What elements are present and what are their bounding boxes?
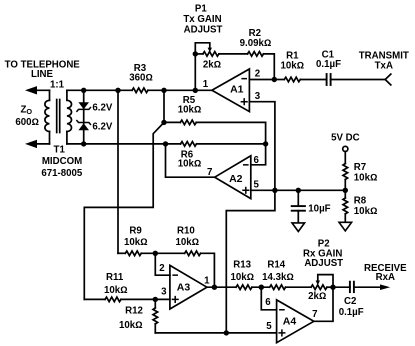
node R9 riser top [115, 88, 120, 93]
label R9 10k [124, 226, 148, 248]
svg-text:ADJUST: ADJUST [304, 258, 343, 269]
node A3 pin3 [153, 297, 158, 302]
wire R9 riser from top rail [117, 90, 119, 253]
node bottom reference [224, 330, 229, 335]
ground under C3 [292, 223, 305, 232]
capacitor C2 [350, 282, 380, 292]
svg-text:1: 1 [203, 79, 209, 90]
zener diode D1 6.2V [77, 102, 91, 111]
svg-text:MIDCOM: MIDCOM [42, 156, 82, 167]
svg-text:9.09kΩ: 9.09kΩ [240, 38, 272, 49]
label R8 10k [354, 196, 378, 218]
svg-text:R10: R10 [177, 226, 195, 237]
label R5 10k [178, 95, 202, 115]
terminal RECEIVE RxA arrow [380, 284, 390, 290]
label P2 Rx GAIN ADJUST [303, 239, 343, 270]
core [56, 100, 58, 133]
wire A1 pin3 to reference [249, 102, 275, 191]
transformer T1 [45, 90, 72, 144]
svg-text:R12: R12 [125, 305, 143, 316]
wire R7 to R8 [344, 180, 346, 198]
wire secondary top [66, 90, 68, 100]
node R7 R8 junction [343, 188, 348, 193]
label R1 10k [280, 51, 304, 72]
svg-text:R8: R8 [354, 196, 367, 207]
svg-text:10kΩ: 10kΩ [354, 206, 378, 217]
potentiometer P2 2k [311, 275, 333, 290]
svg-text:6: 6 [254, 155, 260, 166]
svg-text:10kΩ: 10kΩ [104, 285, 128, 296]
node R6 right [263, 141, 268, 146]
resistor R7 [343, 164, 348, 180]
svg-text:10kΩ: 10kΩ [124, 237, 148, 248]
svg-text:A1: A1 [230, 84, 244, 96]
ground under R8 [339, 222, 352, 231]
label T1 MIDCOM 671-8005 [41, 144, 83, 179]
svg-text:2: 2 [159, 263, 164, 274]
wire A1 pin2 stub [249, 79, 274, 81]
svg-text:10kΩ: 10kΩ [230, 272, 254, 283]
wire diagonal R5 node down [84, 122, 164, 299]
node A3 output [212, 285, 217, 290]
svg-text:2kΩ: 2kΩ [308, 291, 326, 302]
wire primary top [49, 90, 51, 100]
wire secondary bottom [66, 132, 68, 144]
potentiometer P1 2k [195, 43, 219, 56]
svg-text:5V DC: 5V DC [331, 132, 360, 143]
svg-text:T1: T1 [54, 144, 66, 155]
wire A3 output row [207, 286, 236, 288]
wire primary bottom [49, 132, 51, 144]
label C2 0.1uF [339, 296, 364, 318]
node zener top [81, 88, 86, 93]
wire A2 output to R6 node [166, 144, 215, 177]
node reference at A1 pin3 riser [272, 188, 277, 193]
label TRANSMIT TxA [359, 50, 409, 71]
svg-text:C2: C2 [344, 296, 356, 307]
svg-text:R14: R14 [267, 260, 285, 271]
node R9 R10 junction [153, 251, 158, 256]
svg-text:360Ω: 360Ω [129, 72, 153, 83]
label R10 10k [175, 226, 199, 248]
svg-text:3: 3 [255, 91, 261, 102]
capacitor C1 [327, 74, 386, 85]
svg-text:10kΩ: 10kΩ [178, 159, 202, 170]
wire top rail [67, 89, 212, 91]
svg-text:A4: A4 [283, 315, 297, 327]
svg-text:14.3kΩ: 14.3kΩ [262, 272, 294, 283]
resistor R10 [155, 251, 214, 287]
node R5 riser top [161, 88, 166, 93]
svg-text:10µF: 10µF [308, 203, 330, 214]
op-amp A2 [215, 156, 251, 199]
terminal arrow to telephone line bottom [25, 140, 50, 148]
svg-text:3: 3 [161, 287, 167, 298]
label R13 10k [230, 260, 254, 283]
svg-text:0.1µF: 0.1µF [316, 59, 341, 70]
svg-text:A2: A2 [229, 173, 243, 185]
svg-text:10kΩ: 10kΩ [119, 320, 143, 331]
svg-text:R7: R7 [354, 162, 366, 173]
resistor R1 [274, 77, 326, 82]
wire P2 to C2 [333, 286, 350, 288]
wire R13 to R14 [252, 286, 270, 288]
svg-text:A3: A3 [177, 282, 191, 294]
resistor R13 [236, 285, 252, 290]
wire R5 right to A2 pin6 vertical [251, 122, 266, 164]
wire bottom reference row [155, 332, 276, 334]
svg-text:6: 6 [265, 297, 271, 308]
label RECEIVE RxA [364, 263, 407, 283]
svg-text:600Ω: 600Ω [15, 117, 39, 128]
resistor R12 [153, 299, 158, 333]
label R7 10k [354, 162, 378, 184]
svg-text:R13: R13 [233, 260, 251, 271]
svg-text:10kΩ: 10kΩ [178, 104, 202, 115]
label P1 Tx GAIN ADJUST [183, 4, 222, 36]
resistor R8 [343, 198, 348, 214]
capacitor C3 10uF [292, 190, 305, 223]
svg-text:5: 5 [266, 321, 272, 332]
resistor R3 [132, 88, 148, 93]
op-amp A1 [212, 69, 250, 112]
wire A4 pin6 stub [261, 287, 276, 310]
node R6 left [163, 141, 168, 146]
svg-text:6.2V: 6.2V [92, 103, 112, 114]
svg-text:2kΩ: 2kΩ [203, 60, 221, 71]
svg-text:R11: R11 [106, 272, 124, 283]
svg-text:ADJUST: ADJUST [184, 24, 223, 35]
label R2 9.09k [240, 28, 272, 49]
resistor R5 [164, 120, 266, 125]
svg-text:7: 7 [312, 309, 317, 320]
svg-text:LINE: LINE [31, 69, 54, 80]
wire R2 to inverting node [264, 54, 275, 80]
op-amp A3 [170, 265, 207, 309]
resistor R14 [270, 285, 286, 290]
svg-text:ZO: ZO [21, 104, 33, 116]
svg-text:RxA: RxA [376, 272, 395, 283]
label R11 10k [104, 272, 128, 296]
wire A2 pin5 reference row [251, 189, 345, 191]
node 10uF tap [296, 188, 301, 193]
node R13 R14 junction [259, 285, 264, 290]
wire A4 output riser [314, 287, 333, 321]
svg-text:1: 1 [204, 275, 210, 286]
secondary winding [67, 100, 72, 131]
svg-text:Tx GAIN: Tx GAIN [183, 14, 221, 25]
label R6 10k [178, 149, 202, 169]
primary winding [45, 100, 50, 131]
label R12 10k [119, 305, 143, 331]
zener diode D2 6.2V [77, 121, 91, 131]
wire zener rail [83, 90, 85, 144]
op-amp A4 [277, 300, 314, 343]
svg-text:0.1µF: 0.1µF [339, 307, 364, 318]
svg-text:1:1: 1:1 [50, 80, 65, 91]
wire P1 riser to output node [194, 54, 196, 90]
label R3 360 ohm [129, 63, 153, 83]
wire A3 pin2 stub [155, 253, 170, 275]
node A1 output [193, 88, 198, 93]
node zener bottom [81, 141, 86, 146]
label ZO 600 ohm [15, 104, 39, 128]
wire R14 to P2 [286, 286, 311, 288]
wire bottom rail [67, 143, 266, 145]
svg-text:R9: R9 [129, 226, 142, 237]
node P1 left [193, 51, 198, 56]
node P2 right [330, 285, 335, 290]
svg-text:2: 2 [255, 69, 260, 80]
node R5 left [161, 120, 166, 125]
resistor R2 [248, 52, 264, 57]
wire R5 riser from top rail [163, 90, 165, 122]
wire R8 to ground [344, 214, 346, 222]
terminal TRANSMIT TxA [385, 74, 391, 85]
svg-text:10kΩ: 10kΩ [280, 61, 304, 72]
node A1 inverting input [272, 77, 277, 82]
svg-text:6.2V: 6.2V [92, 121, 112, 132]
svg-text:10kΩ: 10kΩ [175, 237, 199, 248]
terminal arrow to telephone line top [25, 86, 50, 94]
label C1 0.1uF [316, 49, 341, 70]
label TO TELEPHONE LINE [5, 60, 81, 81]
label R14 14.3k [262, 260, 294, 283]
svg-text:671-8005: 671-8005 [41, 168, 83, 179]
svg-text:TxA: TxA [375, 61, 393, 72]
wire P1 to R2 [219, 53, 248, 55]
resistor R11 [84, 297, 170, 302]
svg-text:10kΩ: 10kΩ [354, 172, 378, 183]
resistor R9 [118, 251, 155, 256]
wire reference drop to bottom row [226, 190, 275, 333]
svg-text:7: 7 [207, 167, 212, 178]
terminal 5V DC [343, 146, 348, 163]
svg-text:5: 5 [254, 179, 260, 190]
resistor R6 [181, 142, 197, 147]
